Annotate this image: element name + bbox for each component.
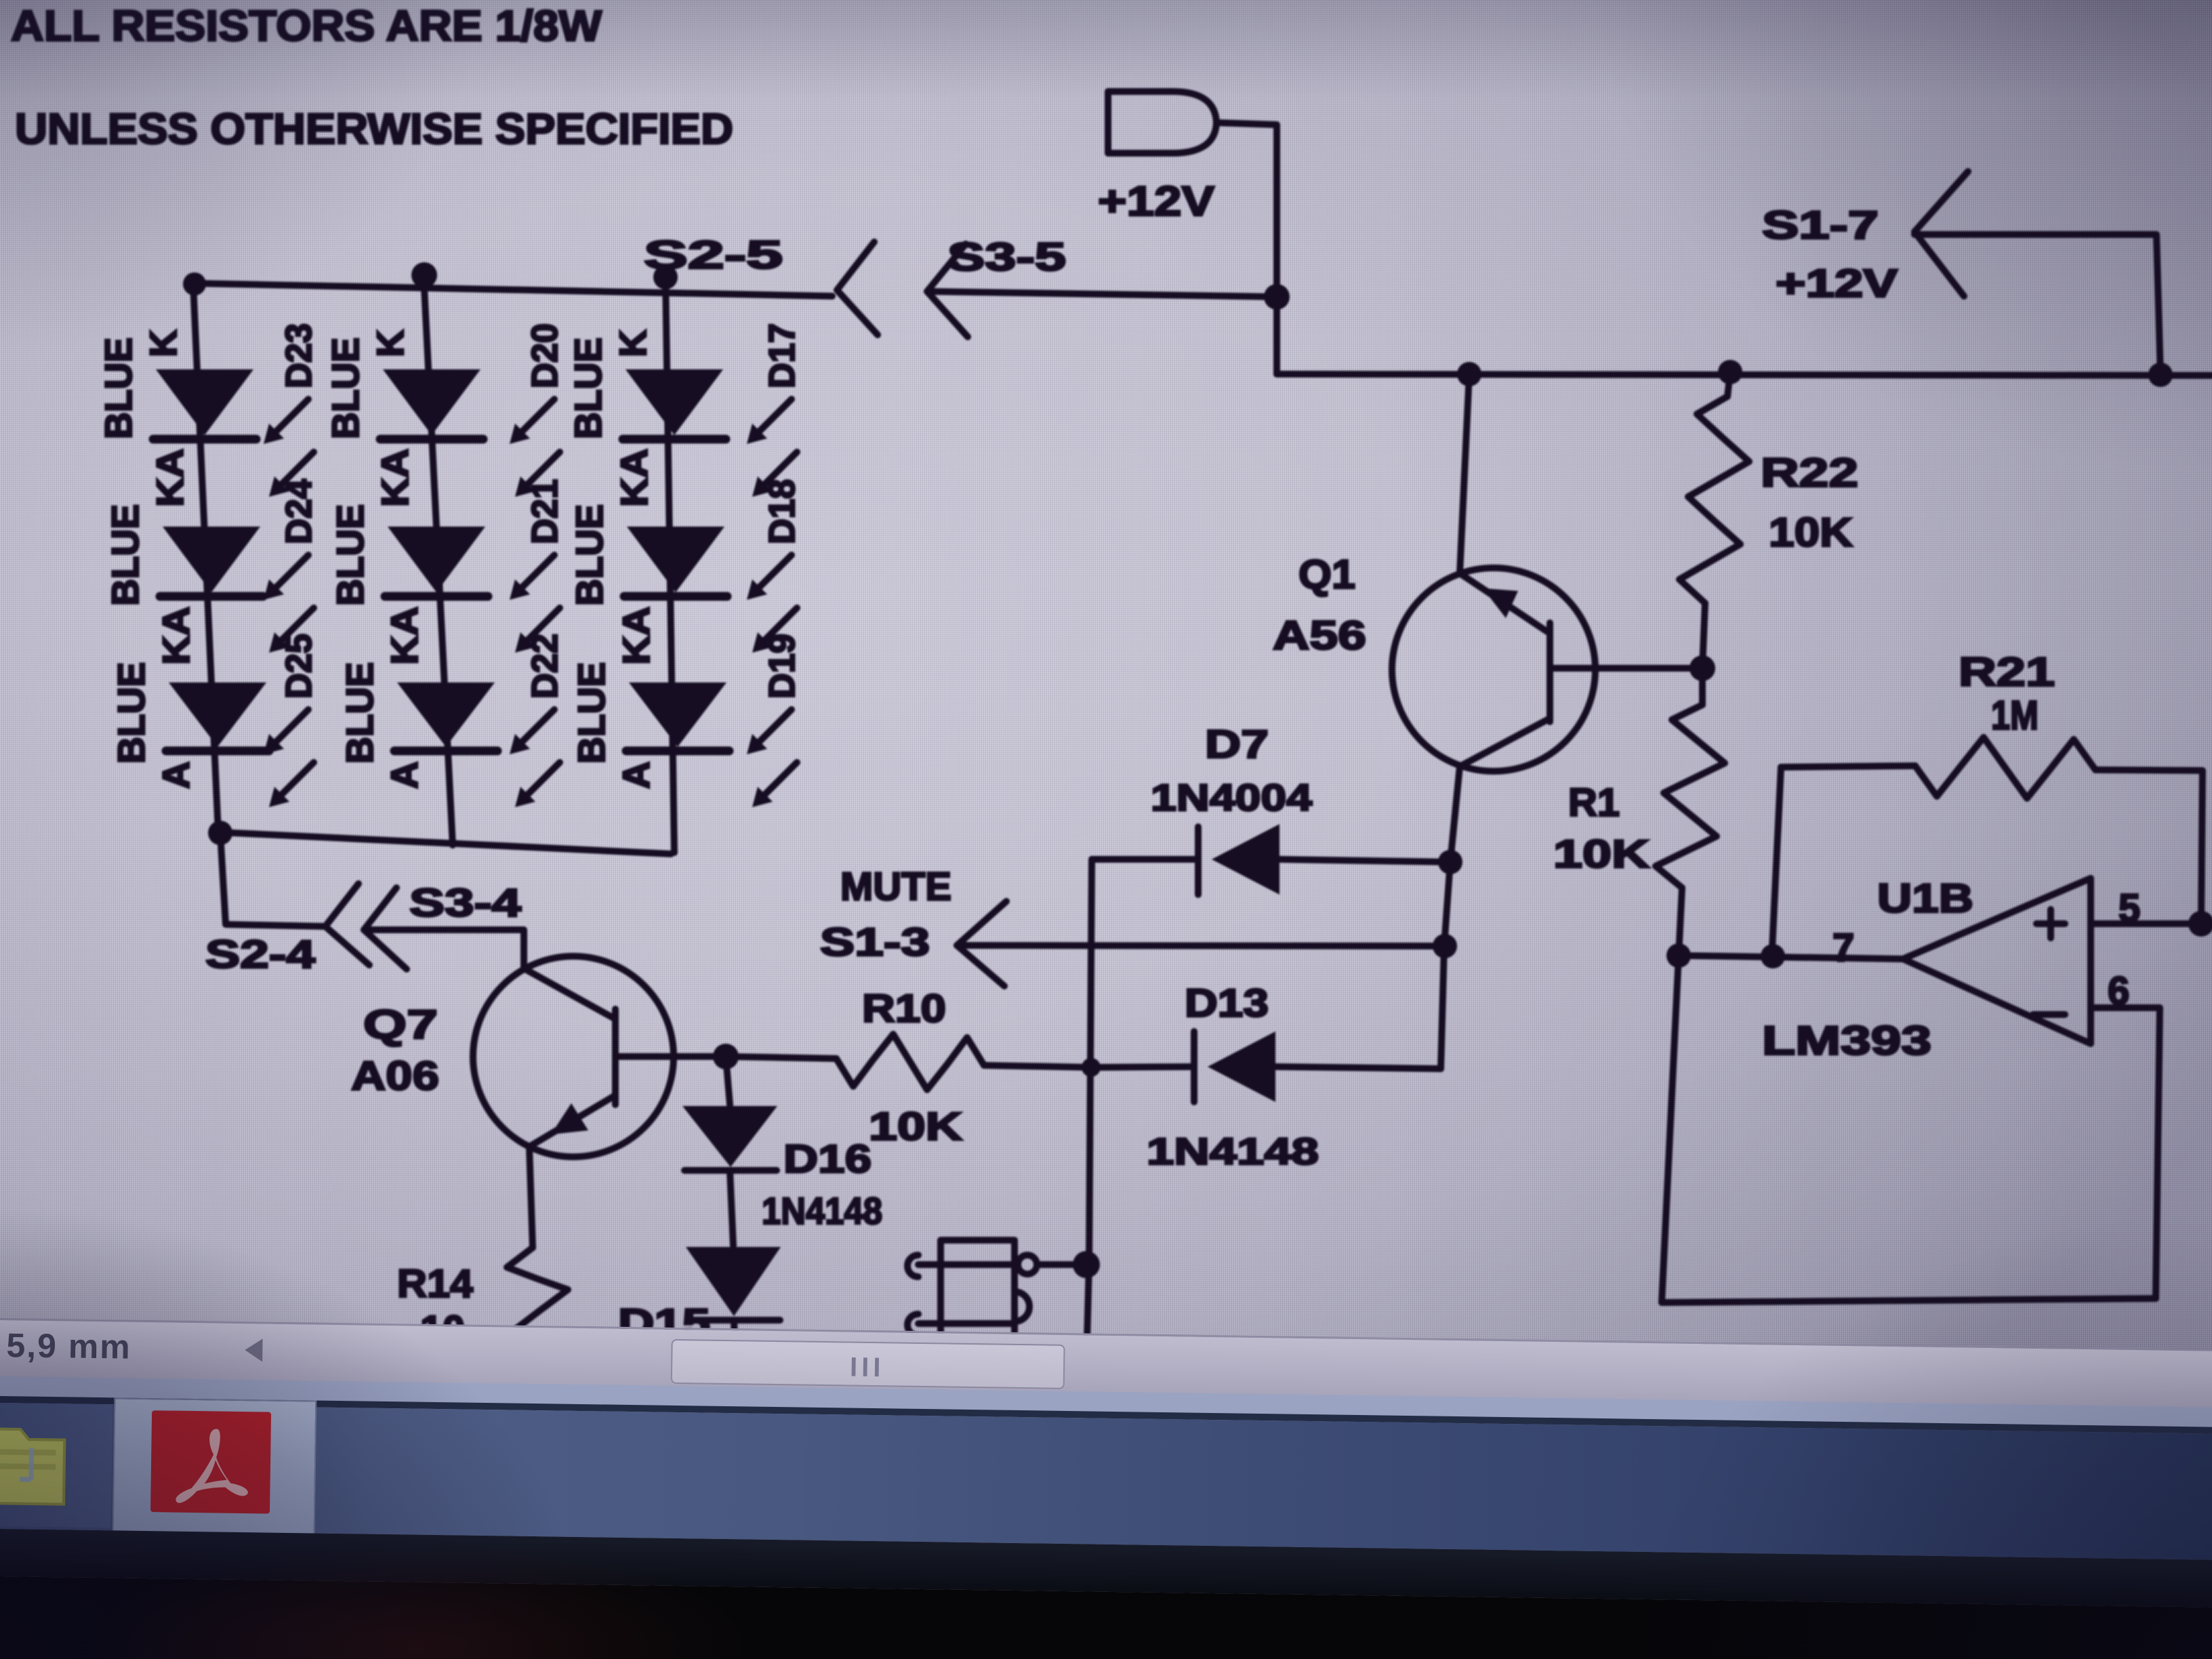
node Q7/D16/R10 bbox=[713, 1044, 739, 1069]
connector S2-5 bbox=[837, 242, 878, 335]
node Q1/S1-3 bbox=[1433, 934, 1457, 958]
op-amp U1B LM393 bbox=[1903, 878, 2091, 1044]
LED arrow D23.1 bbox=[269, 399, 308, 438]
node pin7/R1 bbox=[1666, 943, 1691, 968]
wire LED string 3 column bbox=[665, 276, 674, 853]
LED arrow D18.2 bbox=[758, 608, 797, 647]
resistor R10 10K bbox=[726, 1057, 836, 1059]
LED string 1 row 2 bbox=[163, 527, 260, 592]
node S3-5/+12V junction bbox=[1264, 284, 1290, 310]
node Q1/R22/R1 bbox=[1689, 655, 1715, 681]
wire pin5 bbox=[2091, 920, 2209, 927]
wire +12V rail bbox=[1277, 374, 2212, 375]
node top rail / string1 bbox=[183, 272, 206, 295]
wire S1-3 to Q1 drop bbox=[957, 945, 1445, 946]
wire S1-7 to rail bbox=[1914, 234, 2160, 375]
node net/R10/D13 bbox=[1082, 1058, 1101, 1077]
node net/relay bbox=[1073, 1251, 1100, 1278]
wire LED string 1 column bbox=[193, 283, 218, 832]
adobe reader icon bbox=[150, 1410, 271, 1513]
node top rail / string3 bbox=[653, 265, 678, 289]
node pin5/R21 bbox=[2188, 911, 2212, 937]
connector S1-7 bbox=[1914, 171, 1968, 296]
wire S3-5 to +12V node bbox=[927, 291, 1277, 297]
LED arrow D20.2 bbox=[520, 452, 560, 491]
diode D7 1N4004 bbox=[1195, 827, 1202, 895]
LED arrow D18.1 bbox=[752, 555, 792, 594]
LED string 2 row 2 bbox=[388, 527, 485, 592]
connector S1-3 MUTE bbox=[957, 901, 1006, 986]
wire Q7 emitter bbox=[529, 1147, 533, 1248]
wire LED string 2 column bbox=[424, 274, 453, 845]
node Q1/D7 bbox=[1438, 850, 1462, 874]
transistor Q1 A56 bbox=[1392, 568, 1595, 771]
LED arrow D25.2 bbox=[274, 762, 314, 802]
LED arrow D24.2 bbox=[274, 608, 314, 647]
LED string 3 row 3 bbox=[629, 682, 726, 747]
diode D16 1N4148 bbox=[726, 1057, 730, 1105]
LED arrow D24.1 bbox=[269, 555, 308, 594]
LED arrow D17.2 bbox=[758, 452, 797, 491]
LED string 1 row 1 bbox=[156, 369, 253, 435]
LED arrow D19.2 bbox=[758, 762, 797, 802]
LED string 3 row 1 bbox=[626, 369, 723, 435]
resistor R21 1M bbox=[1772, 767, 1781, 949]
relay contact symbol bbox=[941, 1240, 1015, 1340]
connector S3-4 bbox=[364, 888, 407, 969]
LED arrow D21.1 bbox=[515, 555, 554, 594]
LED arrow D19.1 bbox=[752, 710, 792, 749]
node top rail / string2 bbox=[411, 262, 437, 288]
LED arrow D22.1 bbox=[515, 710, 554, 749]
node bottom rail / string1 bbox=[208, 821, 232, 845]
wire pin7 bbox=[1679, 956, 1903, 959]
wire LED bottom rail bbox=[218, 832, 671, 854]
LED arrow D21.2 bbox=[520, 608, 560, 647]
LED arrow D17.1 bbox=[752, 399, 792, 438]
node rail/R22 bbox=[1718, 360, 1742, 384]
wire +12V stem bbox=[1216, 123, 1277, 374]
wire S3-4 to Q7 bbox=[364, 930, 524, 968]
LED string 1 row 3 bbox=[169, 682, 266, 747]
connector S2-4 bbox=[325, 884, 369, 965]
wire feedback box bottom bbox=[1662, 956, 2156, 1303]
wire LED top rail bbox=[193, 283, 832, 296]
LED string 2 row 1 bbox=[383, 369, 480, 435]
LED string 3 row 2 bbox=[627, 527, 724, 592]
node pin7/R21 bbox=[1761, 944, 1785, 968]
wire mute net vertical bbox=[1087, 859, 1092, 1340]
LED arrow D25.1 bbox=[269, 710, 308, 749]
wire pin6 bbox=[2091, 1008, 2160, 1298]
wire Q1 emitter drop bbox=[1441, 766, 1460, 1069]
resistor R22 10K bbox=[1727, 372, 1730, 396]
diode D13 1N4148 bbox=[1191, 1031, 1197, 1102]
node rail/Q1 bbox=[1457, 362, 1481, 386]
wire LED rail to S2-4 bbox=[220, 833, 325, 926]
diode D15 bbox=[730, 1170, 733, 1246]
power symbol +12V bbox=[1108, 91, 1216, 153]
node rail/S1-7 bbox=[2148, 363, 2173, 387]
LED string 2 row 3 bbox=[397, 682, 495, 747]
transistor Q7 A06 bbox=[473, 956, 674, 1157]
LED arrow D23.2 bbox=[274, 452, 314, 491]
resistor R14 10 bbox=[507, 1248, 568, 1340]
connector S3-5 bbox=[927, 244, 968, 337]
LED arrow D20.1 bbox=[515, 399, 554, 438]
resistor R1 10K bbox=[1656, 705, 1725, 888]
LED arrow D22.2 bbox=[520, 762, 560, 802]
folder icon bbox=[0, 1410, 68, 1513]
